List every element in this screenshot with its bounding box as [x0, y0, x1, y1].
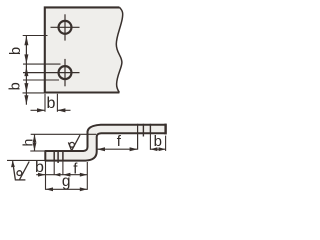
dimension b (upper right) arrows: [150, 147, 165, 151]
dimension b (upper right) line: [150, 148, 165, 150]
surface finish symbol S1 arrowhead: [11, 161, 15, 168]
svg-text:g: g: [62, 173, 71, 190]
Z-bracket right end cap: [164, 124, 166, 135]
dimension f (upper) arrows: [97, 147, 138, 151]
extension line B: [23, 63, 61, 65]
dimension h top extension line: [31, 133, 97, 135]
dimension f (upper) line: [97, 148, 138, 150]
svg-text:b: b: [7, 82, 23, 90]
upper leg hole line 2: [149, 124, 151, 150]
lower leg hole line 1: [53, 150, 55, 175]
plate break line (wavy right edge): [116, 7, 122, 92]
lower leg hole line 2: [57, 150, 59, 163]
hole H1 circle: [59, 21, 72, 34]
dimension b (bottom) line and arrows: [36, 174, 63, 176]
surface finish symbol S2 on lower leg: [68, 135, 80, 151]
surface finish symbol S1 with leader: [13, 161, 30, 180]
plate top view body: [45, 7, 123, 92]
dimension h bottom extension line: [30, 150, 45, 152]
dimension h arrows: [33, 135, 37, 151]
dimension b2 arrows: [24, 67, 28, 105]
bottom b dimension line and arrows: [31, 109, 71, 111]
bottom b extension lines: [45, 94, 57, 112]
svg-text:h: h: [20, 139, 36, 147]
hole H1 center lines: [51, 14, 80, 40]
bottom dims right extension line: [86, 162, 88, 190]
hole H2 center lines: [23, 59, 80, 86]
surface finish symbol S1 extension line: [7, 159, 45, 161]
svg-text:b: b: [35, 159, 44, 176]
svg-text:b: b: [154, 133, 162, 150]
extension line D (plate bottom extended): [23, 92, 53, 94]
dimension b2 line: [25, 64, 27, 105]
svg-text:f: f: [117, 133, 122, 150]
hole H2 circle: [59, 66, 72, 79]
dimension b1 arrows: [24, 36, 28, 64]
extension line C (hole H2 lower tangent): [23, 79, 59, 81]
dimension h line: [34, 134, 36, 151]
extension line A: [23, 35, 48, 37]
svg-text:b: b: [8, 47, 24, 55]
upper leg end extension line: [165, 136, 167, 151]
upper leg hole line 1: [142, 124, 144, 137]
dimension b1 line: [25, 36, 27, 65]
dimension g line: [46, 188, 88, 190]
dimension g arrows: [46, 187, 88, 191]
Z-bracket side view body: [45, 125, 165, 161]
dimension f (bottom) arrows: [63, 173, 87, 177]
lower leg hole line 3: [62, 150, 64, 175]
upper leg f extension line: [137, 124, 139, 150]
bottom dims left extension line: [45, 162, 47, 190]
dimension f (bottom) line: [63, 174, 87, 176]
svg-text:b: b: [47, 95, 56, 112]
